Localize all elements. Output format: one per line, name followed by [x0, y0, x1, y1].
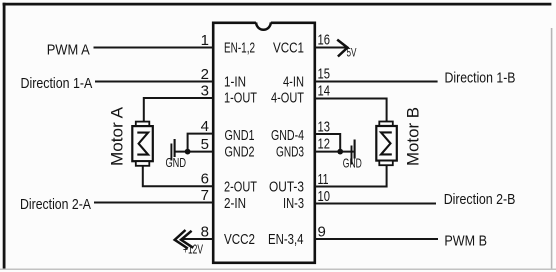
svg-text:4-IN: 4-IN [283, 73, 304, 90]
svg-text:2-OUT: 2-OUT [224, 178, 257, 195]
svg-text:8: 8 [201, 224, 209, 241]
svg-text:4: 4 [201, 118, 209, 135]
svg-text:Motor A: Motor A [109, 107, 127, 166]
wire pin 6 [143, 165, 213, 186]
junction dot right GND node [337, 149, 343, 155]
svg-text:Direction 2-A: Direction 2-A [20, 196, 91, 213]
svg-text:EN-3,4: EN-3,4 [268, 231, 304, 248]
motor M2 Motor B body [376, 122, 397, 166]
border frame bottom (faint) [0, 268, 556, 270]
wire pin 16 [315, 47, 347, 49]
svg-text:2: 2 [201, 66, 209, 83]
border frame left [3, 3, 6, 269]
svg-text:EN-1,2: EN-1,2 [224, 39, 255, 56]
ground symbol left [171, 139, 174, 161]
ground symbol right [352, 140, 355, 165]
wire pin 15 [315, 81, 437, 83]
wire pin 11 [315, 165, 386, 186]
svg-text:PWM B: PWM B [444, 233, 487, 250]
svg-text:GND1: GND1 [225, 127, 255, 144]
wire pin 9 [315, 238, 438, 240]
svg-text:2-IN: 2-IN [224, 195, 246, 212]
svg-text:15: 15 [318, 66, 331, 83]
svg-text:6: 6 [201, 171, 209, 188]
svg-text:PWM A: PWM A [47, 42, 90, 59]
svg-text:Motor B: Motor B [405, 107, 423, 166]
svg-text:10: 10 [318, 188, 331, 205]
svg-text:5: 5 [201, 136, 209, 153]
wire pin 5 [175, 151, 213, 153]
motor M1 Motor A body [132, 122, 153, 166]
wire pin 8 [181, 238, 213, 240]
svg-text:14: 14 [318, 83, 331, 100]
IC U1 pin-1 notch [256, 21, 271, 29]
svg-text:1-IN: 1-IN [224, 73, 246, 90]
svg-text:+12V: +12V [183, 243, 203, 257]
supply arrow +12V (pin 8) [175, 230, 194, 249]
svg-text:VCC2: VCC2 [224, 231, 255, 248]
svg-text:13: 13 [318, 119, 331, 136]
wire pin 14 [315, 99, 386, 123]
svg-text:1-OUT: 1-OUT [224, 89, 257, 106]
svg-text:9: 9 [318, 224, 326, 241]
svg-text:Direction 1-B: Direction 1-B [445, 70, 516, 87]
svg-text:3: 3 [201, 83, 209, 100]
svg-text:11: 11 [318, 171, 329, 188]
border frame top [3, 3, 552, 6]
wire pin 10 [315, 203, 436, 205]
svg-text:Direction 1-A: Direction 1-A [21, 75, 93, 92]
wire pin 4 [188, 134, 213, 152]
junction dot left GND node [185, 149, 191, 155]
border frame right (faint) [551, 28, 553, 270]
svg-text:VCC1: VCC1 [273, 39, 304, 56]
wire pin 1 [94, 47, 213, 49]
svg-text:IN-3: IN-3 [283, 195, 304, 212]
svg-text:5V: 5V [347, 48, 357, 60]
svg-text:1: 1 [201, 32, 209, 49]
svg-text:Direction 2-B: Direction 2-B [444, 191, 516, 208]
svg-text:GND3: GND3 [276, 144, 304, 161]
svg-text:OUT-3: OUT-3 [269, 178, 304, 195]
svg-text:GND: GND [166, 156, 187, 170]
svg-text:16: 16 [318, 32, 331, 49]
IC U1 body [213, 23, 315, 263]
wire pin 7 [94, 202, 213, 204]
svg-text:12: 12 [318, 136, 331, 153]
wire pin 12 [315, 151, 353, 153]
wire pin 2 [95, 81, 213, 83]
svg-text:7: 7 [201, 187, 209, 204]
svg-text:GND: GND [343, 157, 362, 171]
svg-text:GND-4: GND-4 [271, 127, 304, 144]
wire pin 13 [315, 134, 340, 152]
supply arrow 5V (pin 16) [337, 40, 347, 57]
svg-text:GND2: GND2 [225, 144, 255, 161]
wire pin 3 [144, 98, 213, 122]
svg-text:4-OUT: 4-OUT [271, 89, 304, 106]
